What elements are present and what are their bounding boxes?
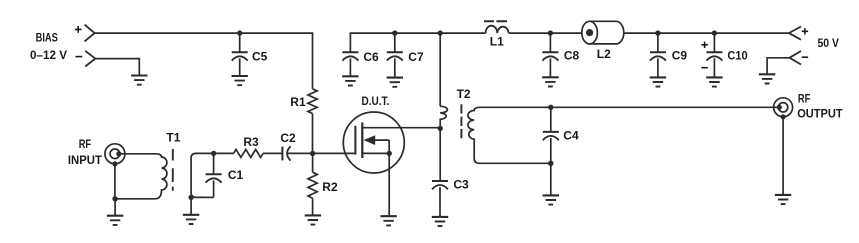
svg-text:C7: C7 — [408, 50, 424, 64]
wire — [190, 197, 192, 214]
wire — [767, 58, 789, 75]
wire — [388, 153, 390, 216]
capacitor C2 — [281, 147, 283, 161]
ground — [183, 214, 199, 216]
transformer T1 secondary single-turn loop — [191, 153, 206, 197]
node — [310, 151, 315, 156]
ground — [543, 194, 559, 196]
node — [237, 30, 242, 35]
ground — [107, 215, 123, 217]
svg-text:C10: C10 — [727, 49, 747, 63]
svg-text:C3: C3 — [453, 177, 469, 191]
node — [392, 30, 397, 35]
svg-text:C2: C2 — [280, 131, 296, 145]
wire — [312, 114, 314, 154]
resistor R1 — [308, 89, 317, 114]
capacitor C9 — [657, 33, 659, 52]
connector RF output jack — [774, 98, 793, 117]
capacitor C7 — [394, 33, 396, 52]
wire — [196, 152, 234, 154]
svg-text:OUTPUT: OUTPUT — [797, 107, 843, 121]
svg-text:0–12 V: 0–12 V — [30, 48, 67, 62]
wire — [782, 117, 784, 195]
node — [655, 30, 660, 35]
transformer T2 primary winding — [440, 106, 447, 128]
svg-text:RF: RF — [79, 137, 91, 151]
wire — [287, 152, 312, 154]
wire — [95, 59, 139, 76]
wire — [115, 198, 152, 200]
node — [712, 30, 717, 35]
inductor L1 — [486, 26, 509, 33]
ground — [759, 73, 775, 75]
ground — [432, 216, 448, 218]
ground — [305, 214, 321, 216]
node — [548, 30, 553, 35]
wire — [95, 33, 313, 89]
capacitor C1 — [213, 153, 215, 174]
resistor R2 — [312, 153, 314, 172]
svg-text:D.U.T.: D.U.T. — [362, 94, 390, 108]
wire — [114, 199, 116, 216]
wire — [509, 32, 582, 34]
svg-text:C9: C9 — [672, 49, 688, 63]
capacitor C6 — [342, 51, 358, 53]
transformer T2 secondary winding — [468, 107, 551, 163]
wire — [263, 152, 282, 154]
connector BIAS + terminal — [85, 25, 95, 42]
wire — [350, 33, 485, 52]
capacitor C8 — [549, 33, 551, 52]
wire — [119, 153, 156, 155]
wire — [401, 127, 440, 129]
node — [438, 126, 443, 131]
connector 50V + terminal — [789, 27, 801, 40]
capacitor C3 — [439, 128, 441, 181]
svg-text:C1: C1 — [228, 168, 244, 182]
wire — [550, 163, 552, 195]
transformer T2 core — [460, 104, 462, 138]
inductor L2 ferrite bead — [590, 21, 624, 44]
wire — [439, 33, 441, 106]
svg-text:C4: C4 — [563, 129, 579, 143]
transformer T1 primary winding — [152, 154, 167, 199]
node — [188, 195, 193, 200]
svg-text:R1: R1 — [290, 95, 306, 109]
svg-text:INPUT: INPUT — [68, 153, 103, 167]
node — [548, 105, 553, 110]
wire — [114, 164, 116, 199]
svg-text:RF: RF — [798, 92, 810, 106]
wire — [480, 106, 779, 108]
wire — [313, 152, 356, 154]
ground — [387, 77, 403, 79]
connector BIAS − terminal — [85, 51, 95, 67]
node — [112, 196, 117, 201]
ground — [131, 74, 147, 76]
svg-text:T1: T1 — [166, 130, 180, 144]
svg-text:C5: C5 — [252, 49, 268, 63]
svg-text:C6: C6 — [363, 50, 379, 64]
capacitor C5 — [239, 33, 241, 52]
node — [548, 161, 553, 166]
transformer T1 core — [172, 149, 174, 191]
ground — [342, 75, 358, 77]
ground — [706, 76, 722, 78]
resistor R3 — [234, 149, 264, 157]
capacitor C10 polarized — [713, 33, 715, 52]
connector RF input jack — [105, 144, 125, 164]
transistor D.U.T. MOSFET — [343, 112, 404, 173]
capacitor C4 — [550, 107, 552, 132]
svg-text:R3: R3 — [243, 135, 259, 149]
node — [211, 151, 216, 156]
ground — [232, 75, 248, 77]
ground — [380, 215, 396, 217]
svg-text:BIAS: BIAS — [36, 30, 58, 44]
connector 50V − terminal — [790, 51, 802, 65]
ground — [650, 76, 666, 78]
svg-text:R2: R2 — [322, 180, 338, 194]
svg-text:L2: L2 — [597, 47, 611, 61]
ground — [775, 194, 791, 196]
svg-text:C8: C8 — [564, 49, 580, 63]
wire — [624, 32, 789, 34]
svg-text:L1: L1 — [490, 34, 504, 48]
wire — [312, 198, 314, 215]
svg-text:T2: T2 — [457, 87, 471, 101]
svg-text:50 V: 50 V — [818, 36, 840, 50]
node — [438, 30, 443, 35]
ground — [542, 76, 558, 78]
